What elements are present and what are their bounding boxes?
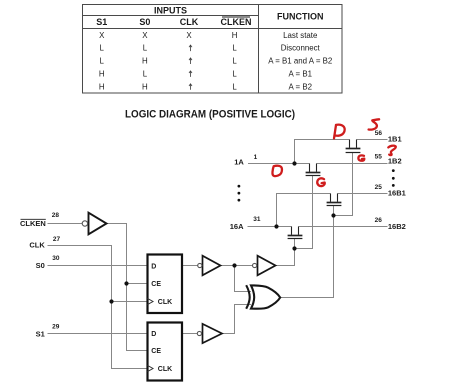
svg-text:H: H bbox=[142, 82, 148, 91]
svg-text:CE: CE bbox=[151, 348, 161, 355]
svg-text:INPUTS: INPUTS bbox=[154, 5, 187, 15]
svg-text:16B1: 16B1 bbox=[388, 189, 406, 198]
svg-text:S0: S0 bbox=[36, 261, 45, 270]
svg-text:L: L bbox=[143, 44, 148, 53]
svg-text:X: X bbox=[186, 31, 192, 40]
svg-text:16A: 16A bbox=[230, 222, 244, 231]
svg-text:A = B2: A = B2 bbox=[289, 82, 312, 91]
svg-text:S0: S0 bbox=[139, 17, 150, 27]
svg-text:L: L bbox=[100, 57, 105, 66]
svg-text:L: L bbox=[143, 70, 148, 79]
svg-text:CLK: CLK bbox=[158, 366, 172, 373]
svg-text:Last state: Last state bbox=[283, 31, 318, 40]
svg-text:29: 29 bbox=[52, 324, 60, 331]
svg-text:H: H bbox=[99, 70, 105, 79]
svg-text:28: 28 bbox=[52, 212, 60, 219]
svg-text:26: 26 bbox=[375, 217, 383, 224]
svg-text:L: L bbox=[100, 44, 105, 53]
svg-text:A = B1: A = B1 bbox=[289, 70, 312, 79]
svg-text:CLK: CLK bbox=[158, 299, 172, 306]
svg-text:X: X bbox=[99, 31, 105, 40]
svg-text:X: X bbox=[142, 31, 148, 40]
svg-text:CLKEN: CLKEN bbox=[20, 219, 46, 228]
svg-text:L: L bbox=[232, 44, 237, 53]
svg-text:S1: S1 bbox=[36, 330, 45, 339]
svg-text:27: 27 bbox=[53, 236, 61, 243]
svg-text:D: D bbox=[151, 264, 156, 271]
svg-text:FUNCTION: FUNCTION bbox=[277, 12, 324, 22]
svg-text:1B1: 1B1 bbox=[388, 135, 402, 144]
svg-text:CE: CE bbox=[151, 281, 161, 288]
svg-text:L: L bbox=[232, 70, 237, 79]
svg-text:D: D bbox=[151, 331, 156, 338]
svg-text:A = B1 and A = B2: A = B1 and A = B2 bbox=[268, 57, 332, 66]
svg-text:L: L bbox=[232, 57, 237, 66]
svg-text:56: 56 bbox=[375, 130, 383, 137]
svg-text:CLK: CLK bbox=[29, 241, 45, 250]
svg-text:S1: S1 bbox=[96, 17, 107, 27]
svg-text:1: 1 bbox=[254, 154, 258, 161]
svg-text:LOGIC DIAGRAM (POSITIVE LOGIC): LOGIC DIAGRAM (POSITIVE LOGIC) bbox=[125, 109, 295, 121]
svg-text:Disconnect: Disconnect bbox=[281, 44, 321, 53]
svg-text:H: H bbox=[142, 57, 148, 66]
svg-text:H: H bbox=[232, 31, 238, 40]
svg-text:25: 25 bbox=[375, 184, 383, 191]
svg-text:1A: 1A bbox=[234, 158, 244, 167]
svg-text:CLKEN: CLKEN bbox=[221, 17, 252, 27]
svg-text:55: 55 bbox=[375, 154, 383, 161]
svg-text:CLK: CLK bbox=[180, 17, 199, 27]
svg-text:31: 31 bbox=[253, 216, 261, 223]
svg-text:30: 30 bbox=[52, 255, 60, 262]
svg-text:H: H bbox=[99, 82, 105, 91]
svg-text:L: L bbox=[232, 82, 237, 91]
svg-text:1B2: 1B2 bbox=[388, 156, 402, 165]
svg-text:16B2: 16B2 bbox=[388, 222, 406, 231]
